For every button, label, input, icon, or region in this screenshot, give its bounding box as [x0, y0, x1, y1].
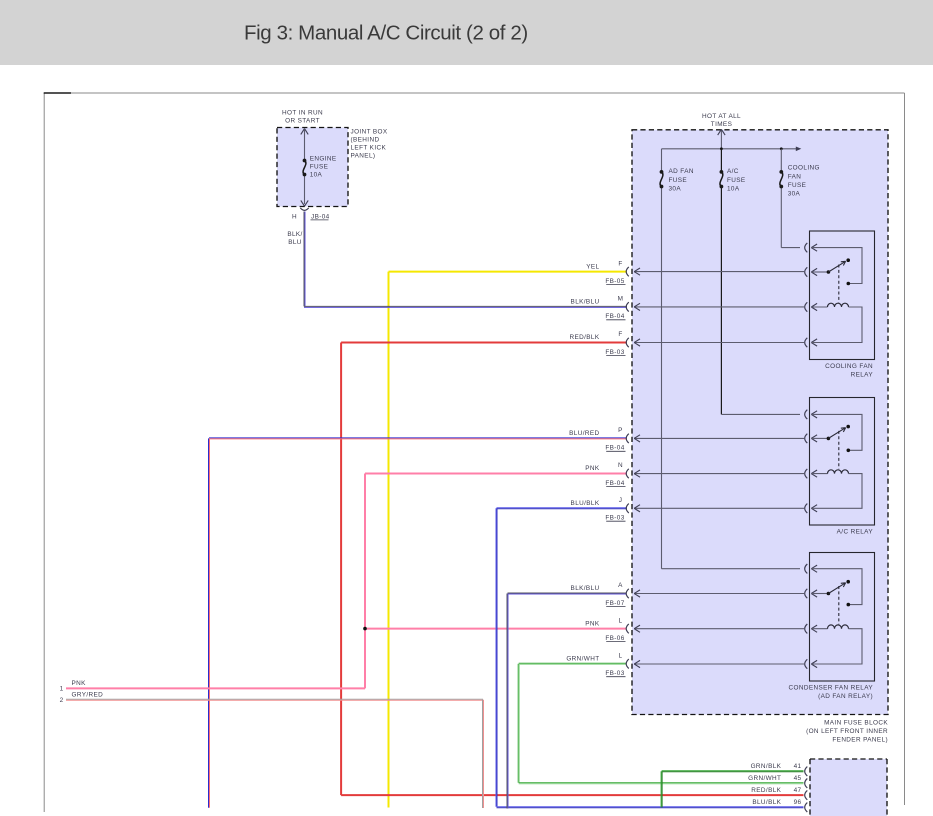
svg-text:L: L [619, 653, 623, 660]
svg-text:FB-03: FB-03 [605, 670, 624, 677]
relay switch armature [811, 271, 827, 273]
relay normally-open contact [846, 258, 850, 262]
label BLK/BLU M FB-04 [571, 296, 626, 321]
svg-text:MAIN FUSE BLOCK: MAIN FUSE BLOCK [824, 719, 888, 726]
label RED/BLK 47 [751, 787, 801, 794]
relay: condenser fan relay [805, 553, 875, 682]
svg-text:FB-04: FB-04 [605, 480, 624, 487]
bus wire across fuses [662, 147, 802, 152]
svg-text:J: J [619, 497, 623, 504]
svg-text:BLU/BLK: BLU/BLK [571, 500, 600, 507]
label A/C FUSE 10A [727, 168, 746, 192]
relay pin connector [805, 267, 808, 276]
svg-text:(BEHIND: (BEHIND [351, 137, 380, 144]
label BLU/BLK J FB-03 [571, 497, 626, 522]
svg-text:COOLING: COOLING [788, 165, 820, 172]
arrow down at joint box bottom [301, 200, 308, 206]
label CONDENSER FAN RELAY [788, 685, 873, 700]
header title bar [0, 0, 933, 65]
wire GRN/BLK (terminal 41) [661, 771, 803, 808]
connector terminal 41 (GRN/BLK) [805, 767, 808, 776]
svg-text:PNK: PNK [585, 465, 600, 472]
connector M FB-04 (BLK/BLU) [626, 302, 629, 311]
svg-text:RELAY: RELAY [851, 371, 874, 378]
svg-text:F: F [618, 260, 622, 267]
label GRN/WHT L FB-03 [566, 653, 625, 678]
svg-text:FAN: FAN [788, 173, 802, 180]
svg-text:HOT IN RUN: HOT IN RUN [282, 110, 323, 117]
relay pin connector [805, 504, 808, 513]
relay contact feed (pin1 to fixed contact) [811, 569, 862, 605]
terminal 1 label PNK [60, 680, 87, 692]
svg-text:P: P [618, 427, 623, 434]
svg-text:(AD FAN RELAY): (AD FAN RELAY) [818, 693, 873, 700]
connector terminal 96 (BLU/BLK) [805, 803, 808, 812]
svg-text:A/C: A/C [727, 168, 739, 175]
svg-text:BLU/RED: BLU/RED [569, 430, 599, 437]
svg-text:H: H [292, 213, 297, 220]
relay: cooling fan relay [805, 231, 875, 360]
label JOINT BOX (BEHIND LEFT KICK PANEL) [351, 129, 388, 160]
svg-text:AD FAN: AD FAN [669, 168, 694, 175]
svg-text:F: F [618, 331, 622, 338]
svg-text:JOINT BOX: JOINT BOX [351, 129, 388, 136]
label ENGINE FUSE 10A [310, 155, 337, 178]
svg-text:30A: 30A [788, 191, 801, 198]
svg-text:30A: 30A [669, 186, 682, 193]
wire GRN/WHT (pin L FB-03 to terminal 45) [518, 663, 803, 783]
svg-text:41: 41 [794, 763, 802, 770]
label COOLING FAN RELAY [825, 363, 873, 378]
svg-text:BLU: BLU [288, 239, 302, 246]
wire BLU/RED (pin P, FB-04) [209, 438, 628, 808]
svg-text:FB-04: FB-04 [605, 313, 624, 320]
svg-text:BLK/BLU: BLK/BLU [571, 299, 600, 306]
connector F FB-05 (YEL) [626, 267, 629, 276]
svg-text:10A: 10A [727, 186, 740, 193]
svg-text:RED/BLK: RED/BLK [569, 334, 599, 341]
relay armature-coil dashed link [838, 265, 840, 303]
relay switch armature [811, 593, 827, 595]
label BLK/BLU A FB-07 [571, 582, 626, 607]
engine fuse 10A symbol [303, 159, 307, 177]
svg-text:PNK: PNK [72, 680, 87, 687]
label GRN/WHT 45 [748, 775, 801, 782]
relay switch armature [811, 437, 827, 439]
relay pin connector [805, 469, 808, 478]
relay pin connector [805, 338, 808, 347]
svg-text:47: 47 [794, 787, 802, 794]
wire BLK/BLU (pin A, FB-07) [507, 593, 626, 809]
svg-text:COOLING FAN: COOLING FAN [825, 363, 873, 370]
junction dot PNK [363, 627, 367, 631]
connector H of JB-04 [300, 208, 308, 210]
wire BLU/BLK (pin J FB-03 to terminal 96) [496, 508, 804, 808]
svg-text:BLK/: BLK/ [287, 231, 302, 238]
label YEL F FB-05 [586, 260, 625, 285]
arrow up at joint box top [301, 129, 308, 135]
relay pin connector [805, 302, 808, 311]
relay armature-coil dashed link [838, 586, 840, 624]
svg-text:GRN/BLK: GRN/BLK [751, 763, 782, 770]
relay normally-open contact [846, 580, 850, 584]
relay pin connector [805, 243, 808, 252]
svg-text:YEL: YEL [586, 263, 599, 270]
svg-text:N: N [618, 462, 623, 469]
svg-text:1: 1 [60, 685, 64, 692]
bottom connector block (dashed box) [810, 759, 887, 816]
svg-text:A/C RELAY: A/C RELAY [837, 529, 874, 536]
relay normally-open contact [846, 425, 850, 429]
connector L FB-06 (PNK) [626, 624, 629, 633]
cooling fan fuse 30A symbol [779, 170, 783, 188]
label BLU/RED P FB-04 [569, 427, 625, 452]
label PNK N FB-04 [585, 462, 625, 487]
svg-text:PNK: PNK [585, 620, 600, 627]
connector terminal 47 (RED/BLK) [805, 790, 808, 799]
relay armature-coil dashed link [838, 431, 840, 469]
relay pin connector [805, 434, 808, 443]
svg-text:45: 45 [794, 775, 802, 782]
wire BLK/BLU from JB-04 to pin M FB-04 [304, 212, 627, 308]
label HOT AT ALL TIMES [702, 113, 741, 128]
svg-text:FUSE: FUSE [669, 177, 688, 184]
relay pin connector [805, 624, 808, 633]
terminal 2 label GRY/RED [60, 692, 104, 704]
connector A FB-07 (BLK/BLU) [626, 589, 629, 598]
svg-text:96: 96 [794, 799, 802, 806]
relay pin connector [805, 589, 808, 598]
relay pin connector [805, 564, 808, 573]
label PNK L FB-06 [585, 617, 625, 642]
svg-text:PANEL): PANEL) [351, 152, 376, 159]
svg-text:FB-03: FB-03 [605, 349, 624, 356]
relay coil [811, 473, 827, 475]
svg-text:FB-07: FB-07 [605, 600, 624, 607]
relay contact feed (pin1 to fixed contact) [811, 414, 862, 450]
svg-text:FB-04: FB-04 [605, 445, 624, 452]
main fuse block (dashed box) [632, 130, 888, 715]
svg-text:GRY/RED: GRY/RED [72, 692, 104, 699]
svg-text:FB-06: FB-06 [605, 635, 624, 642]
svg-text:A: A [618, 582, 623, 589]
svg-text:OR START: OR START [285, 118, 320, 125]
AD FAN fuse 30A symbol [660, 170, 664, 188]
svg-text:BLU/BLK: BLU/BLK [752, 799, 781, 806]
label MAIN FUSE BLOCK (ON LEFT FRONT INNER FENDER PANEL) [806, 719, 888, 743]
A/C fuse 10A symbol [720, 170, 724, 188]
junction dot at cooling fan fuse [780, 147, 783, 150]
relay pin connector [805, 410, 808, 419]
internal wires from fuse block edge to relay pins [634, 268, 804, 668]
connector F FB-03 (RED/BLK) [626, 338, 629, 347]
label GRN/BLK 41 [751, 763, 802, 770]
svg-text:M: M [618, 296, 624, 303]
label COOLING FAN FUSE 30A [788, 165, 820, 198]
svg-text:CONDENSER FAN RELAY: CONDENSER FAN RELAY [788, 685, 873, 692]
feed wire HOT AT ALL TIMES [718, 129, 725, 149]
svg-text:FUSE: FUSE [310, 163, 329, 170]
svg-text:(ON LEFT FRONT INNER: (ON LEFT FRONT INNER [806, 728, 888, 735]
svg-text:JB-04: JB-04 [311, 213, 330, 220]
svg-text:10A: 10A [310, 171, 323, 178]
svg-text:FUSE: FUSE [788, 182, 807, 189]
label HOT IN RUN OR START [282, 110, 323, 125]
svg-text:FB-05: FB-05 [605, 278, 624, 285]
svg-text:TIMES: TIMES [711, 121, 732, 128]
wire A/C fuse branch [721, 149, 800, 415]
label AD FAN FUSE 30A [669, 168, 694, 192]
svg-text:GRN/WHT: GRN/WHT [748, 775, 781, 782]
wire AD FAN fuse branch [662, 149, 801, 569]
relay coil [811, 628, 827, 630]
svg-text:FENDER PANEL): FENDER PANEL) [832, 737, 888, 744]
wire YEL (pin F, FB-05) [389, 272, 628, 808]
wire inside joint box [304, 130, 306, 204]
connector N FB-04 (PNK) [626, 469, 629, 478]
wire PNK (pin N FB-04 to terminal 1) [66, 474, 627, 689]
svg-text:LEFT KICK: LEFT KICK [351, 144, 387, 151]
connector P FB-04 (BLU/RED) [626, 434, 629, 443]
svg-text:ENGINE: ENGINE [310, 155, 337, 162]
svg-text:Fig 3: Manual A/C Circuit (2 o: Fig 3: Manual A/C Circuit (2 of 2) [244, 22, 528, 45]
wire label BLK/BLU (joint box feed) [287, 231, 302, 246]
joint box JB-04 (dashed box) [277, 128, 348, 207]
svg-text:BLK/BLU: BLK/BLU [571, 585, 600, 592]
label A/C RELAY [837, 529, 874, 536]
relay coil [811, 306, 827, 308]
svg-text:HOT AT ALL: HOT AT ALL [702, 113, 741, 120]
connector L FB-03 (GRN/WHT) [626, 659, 629, 668]
relay pin connector [805, 659, 808, 668]
connector terminal 45 (GRN/WHT) [805, 779, 808, 788]
relay: A/C relay [805, 398, 875, 526]
svg-text:FUSE: FUSE [727, 177, 746, 184]
connector J FB-03 (BLU/BLK) [626, 504, 629, 513]
junction dot at A/C fuse [720, 147, 723, 150]
svg-text:GRN/WHT: GRN/WHT [566, 656, 599, 663]
relay contact feed (pin1 to fixed contact) [811, 248, 862, 284]
connector label JB-04 [311, 213, 330, 220]
wire cooling fan fuse branch [781, 149, 800, 248]
svg-text:FB-03: FB-03 [605, 515, 624, 522]
svg-text:RED/BLK: RED/BLK [751, 787, 781, 794]
wire PNK branch (pin L, FB-06) [365, 628, 626, 630]
label BLU/BLK 96 [752, 799, 801, 806]
svg-text:L: L [619, 617, 623, 624]
label RED/BLK F FB-03 [569, 331, 625, 356]
wire GRY/RED (terminal 2) [66, 699, 484, 808]
wire RED/BLK (pin F FB-03 to terminal 47) [341, 343, 803, 796]
svg-text:2: 2 [60, 697, 64, 704]
